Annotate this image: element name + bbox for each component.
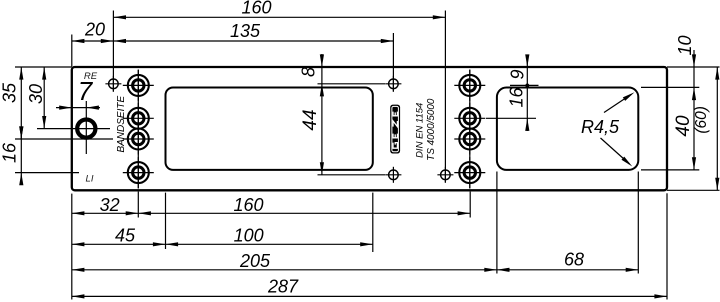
extension line cutout-left bottom vertical <box>165 193 167 249</box>
dimension 205 <box>72 251 497 272</box>
dimension 16 left <box>0 126 23 185</box>
big spindle hole <box>77 120 95 138</box>
dimension 35 <box>0 67 23 139</box>
extension line col 180mm vertical <box>444 11 446 183</box>
extension line row1 right (9mm) <box>510 84 539 86</box>
svg-text:(60): (60) <box>693 106 710 134</box>
small hole bottom-right <box>437 167 453 183</box>
dimension (60) <box>693 67 720 190</box>
GEZE logo box <box>390 105 400 154</box>
extension line plate top-right <box>667 66 720 68</box>
svg-text:205: 205 <box>239 251 271 271</box>
svg-text:44: 44 <box>300 109 321 130</box>
hole C1 row3 <box>123 124 154 155</box>
svg-text:68: 68 <box>564 250 584 270</box>
dimension 16 right <box>507 85 530 131</box>
svg-text:32: 32 <box>100 195 120 215</box>
column 1 centerline <box>137 70 139 189</box>
svg-text:RE: RE <box>84 71 98 82</box>
big spindle hole centerline horizontal <box>37 128 110 130</box>
big spindle hole centerline vertical <box>85 101 87 154</box>
extension line plate top-left <box>15 66 72 68</box>
dimension 44 <box>300 67 324 175</box>
svg-text:DIN EN 1154: DIN EN 1154 <box>414 103 425 158</box>
svg-text:160: 160 <box>241 0 271 18</box>
dimension 40 <box>673 67 696 170</box>
hole C2 row3 <box>454 124 485 155</box>
extension line rcutout-left bottom vertical <box>496 172 498 274</box>
extension line cutout top right <box>641 86 699 88</box>
svg-text:100: 100 <box>234 226 264 246</box>
hole C1 row2 <box>123 103 154 134</box>
svg-text:135: 135 <box>230 21 261 41</box>
svg-text:287: 287 <box>267 277 299 297</box>
svg-text:160: 160 <box>233 195 263 215</box>
svg-text:40: 40 <box>673 115 694 137</box>
extension line row2 right (25mm) <box>486 117 536 119</box>
dimension 30 <box>26 67 46 129</box>
extension line col2 bottom vertical <box>469 192 471 218</box>
extension line row3 left <box>15 138 113 140</box>
leader R4,5 bottom <box>601 138 634 168</box>
svg-text:20: 20 <box>84 19 105 39</box>
right cutout <box>497 88 638 170</box>
svg-text:45: 45 <box>115 226 136 246</box>
dimension 68 <box>497 250 638 272</box>
dimension 20 top <box>72 19 114 43</box>
extension line col1 bottom vertical <box>137 192 139 218</box>
hole C1 row1 <box>123 70 154 101</box>
extension line col 155mm vertical <box>392 33 394 92</box>
svg-text:10: 10 <box>675 35 695 55</box>
extension line plate bottom-right <box>667 189 720 191</box>
column 2 centerline <box>469 70 471 189</box>
svg-text:BANDSEITE: BANDSEITE <box>116 96 127 153</box>
svg-text:R4,5: R4,5 <box>581 117 620 137</box>
extension line plate left bottom vertical <box>71 194 73 300</box>
dimension 7 <box>56 76 100 110</box>
extension line cutout-right bottom vertical <box>372 193 374 252</box>
dimension 8 <box>299 54 325 77</box>
small hole bottom-mid <box>385 167 401 183</box>
svg-text:16: 16 <box>0 142 20 163</box>
dimension 45 <box>72 226 166 247</box>
dimension 10 <box>675 35 696 67</box>
middle cutout <box>166 88 373 170</box>
extension line row4 left <box>15 172 79 174</box>
svg-text:9: 9 <box>508 69 528 79</box>
leader R4,5 top <box>604 90 636 112</box>
extension line col 20mm vertical <box>112 11 114 92</box>
dimension 135 top <box>113 21 393 43</box>
dimension 9 <box>508 54 530 87</box>
extension line plate left top vertical <box>71 35 73 67</box>
svg-text:30: 30 <box>26 84 46 104</box>
dimension 100 <box>166 226 373 247</box>
hole C2 row2 <box>454 103 485 134</box>
extension line plate right bottom vertical <box>666 193 668 299</box>
dimension 160 bottom <box>138 195 470 216</box>
plate outline <box>72 67 667 190</box>
hole C1 row4 <box>123 157 154 188</box>
dimension 32 <box>72 195 139 216</box>
extension line rcutout-right bottom vertical <box>637 172 639 274</box>
small hole top-left <box>105 76 121 92</box>
svg-text:35: 35 <box>0 82 20 103</box>
small hole top-mid <box>385 76 401 92</box>
svg-text:LI: LI <box>86 173 94 184</box>
dimension 287 <box>72 277 667 299</box>
extension line small-hole row bottom (52mm) <box>318 174 386 176</box>
extension line cutout bottom right <box>641 169 699 171</box>
svg-text:8: 8 <box>299 67 319 77</box>
svg-text:TS 4000/5000: TS 4000/5000 <box>426 98 437 161</box>
dimension 160 top <box>113 0 445 19</box>
extension line small-hole row top (8mm) <box>318 83 386 85</box>
svg-text:16: 16 <box>507 87 527 108</box>
hole C2 row1 <box>454 70 485 101</box>
hole C2 row4 <box>454 157 485 188</box>
